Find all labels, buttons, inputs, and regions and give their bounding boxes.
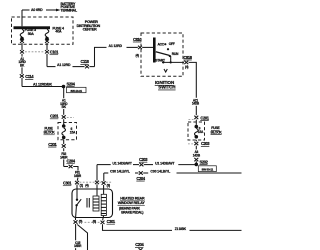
wire A1 12RD up to ignition switch <box>95 47 107 66</box>
svg-text:POWER: POWER <box>85 20 98 24</box>
relay pin leads <box>76 185 78 199</box>
relay coil bars <box>86 198 88 208</box>
connector C201 right <box>194 116 198 119</box>
power distribution center box <box>12 17 74 44</box>
svg-text:HEATED REAR: HEATED REAR <box>120 197 145 201</box>
wire A0 6RD battery feed vertical <box>21 10 23 26</box>
svg-text:(4): (4) <box>136 54 139 58</box>
svg-text:BRAKE PEDAL): BRAKE PEDAL) <box>121 210 143 214</box>
svg-text:C301: C301 <box>107 219 116 224</box>
ignition switch box <box>141 33 183 76</box>
svg-text:(3): (3) <box>107 183 110 187</box>
svg-text:BLOCK: BLOCK <box>211 130 223 134</box>
svg-text:C203: C203 <box>201 141 210 146</box>
connector C203 right column <box>195 140 197 142</box>
svg-text:C201: C201 <box>48 142 57 147</box>
wire A0 6RD to battery, label A0 6RD <box>22 9 30 11</box>
svg-text:C301: C301 <box>63 181 72 186</box>
ignition switch blade <box>156 52 170 56</box>
svg-text:14BR: 14BR <box>74 174 82 178</box>
wire A1 12RD from fuse 4 <box>46 54 48 67</box>
connector C201 left lower <box>63 140 65 144</box>
svg-text:40A: 40A <box>55 30 62 34</box>
svg-text:C201: C201 <box>50 114 59 119</box>
connector C204 on row B <box>139 171 143 174</box>
PDC bus bar <box>14 26 51 29</box>
relay switch contact <box>76 199 78 201</box>
svg-text:S202: S202 <box>200 159 209 164</box>
wire A21 14DB down right column <box>189 62 197 97</box>
wire F32 14BR <box>63 148 65 151</box>
svg-text:U1 14DB/WT: U1 14DB/WT <box>112 161 132 165</box>
svg-text:(1): (1) <box>80 183 83 187</box>
wire U1 14DB/WT row A <box>96 165 98 181</box>
svg-text:BLOCK: BLOCK <box>44 131 56 135</box>
connector C301 bottom of relay <box>75 218 77 221</box>
svg-text:U1 14DB/WT: U1 14DB/WT <box>155 161 175 165</box>
svg-text:14DB: 14DB <box>192 102 200 106</box>
svg-text:8W-30-11: 8W-30-11 <box>202 167 214 171</box>
svg-text:C201: C201 <box>200 115 209 120</box>
wire A3 14DB <box>195 146 197 150</box>
svg-text:A0 6RD: A0 6RD <box>31 8 43 12</box>
svg-text:14DB: 14DB <box>193 153 201 157</box>
connector C114 <box>20 74 24 77</box>
wire diagonal from pin 5 <box>77 225 87 250</box>
svg-text:SWITCH: SWITCH <box>158 85 175 90</box>
svg-text:ACC: ACC <box>158 42 165 46</box>
svg-text:CENTER: CENTER <box>83 28 97 32</box>
fuse 4 40A <box>45 29 49 36</box>
fuse 6 15A <box>62 124 66 128</box>
wire to splice S204, label A1 12RD/BK <box>21 78 23 87</box>
heated rear window relay box <box>72 189 113 218</box>
svg-text:S204: S204 <box>67 81 76 86</box>
relay coil bottom lead <box>103 216 104 221</box>
svg-text:C114: C114 <box>25 74 34 79</box>
svg-text:Z1 18BK: Z1 18BK <box>175 227 187 231</box>
splice S202 <box>195 163 199 167</box>
svg-text:C204: C204 <box>135 242 144 247</box>
wire Z1 18BK ground from pin 8 <box>103 224 173 230</box>
svg-text:C204: C204 <box>136 176 145 181</box>
svg-text:A1 12RD/BK: A1 12RD/BK <box>33 83 53 87</box>
wire A1 12RD/BK down from S204 <box>63 87 65 99</box>
svg-text:A1 12RD: A1 12RD <box>57 63 71 67</box>
fuse block box left <box>58 123 77 140</box>
ignition switch bus bar <box>153 38 156 63</box>
connector C101 <box>21 43 23 50</box>
svg-text:C818: C818 <box>184 55 193 60</box>
svg-text:15A: 15A <box>70 131 76 135</box>
svg-text:C204: C204 <box>67 159 76 164</box>
svg-text:(4): (4) <box>185 65 188 69</box>
svg-text:RUN: RUN <box>172 52 179 56</box>
svg-text:15A: 15A <box>198 130 204 134</box>
splice S204 <box>62 85 66 89</box>
svg-text:C30 14LB/YL: C30 14LB/YL <box>150 170 171 174</box>
svg-text:50A: 50A <box>28 32 35 36</box>
wire C15 14BR down from pin 5 <box>75 224 77 240</box>
svg-text:C118: C118 <box>81 59 90 64</box>
svg-text:14BR: 14BR <box>74 244 82 248</box>
ignition switch output wire <box>162 61 184 63</box>
fuse block box right <box>188 122 205 140</box>
svg-text:(8): (8) <box>93 220 96 224</box>
wire C30 14LB/YL row B <box>103 173 105 181</box>
fuse 3 50A <box>20 29 24 36</box>
wire F31 14BR elbow to relay <box>64 166 68 168</box>
svg-text:C203: C203 <box>139 157 148 162</box>
svg-text:WINDOW RELAY: WINDOW RELAY <box>118 201 146 205</box>
relay winding box <box>101 194 106 215</box>
relay coil core box <box>93 196 99 211</box>
svg-text:C101: C101 <box>50 50 59 55</box>
wire A1 12RD/BK left column <box>21 54 23 57</box>
svg-text:A1 12RD: A1 12RD <box>109 44 123 48</box>
svg-text:(5): (5) <box>79 220 82 224</box>
svg-text:C30 14LB/YL: C30 14LB/YL <box>110 170 131 174</box>
svg-text:(4): (4) <box>85 183 88 187</box>
fuse 9 15A <box>195 125 199 129</box>
svg-text:TERMINAL: TERMINAL <box>61 9 78 13</box>
svg-text:OFF: OFF <box>169 42 175 46</box>
svg-text:8W-10-11: 8W-10-11 <box>71 89 83 93</box>
